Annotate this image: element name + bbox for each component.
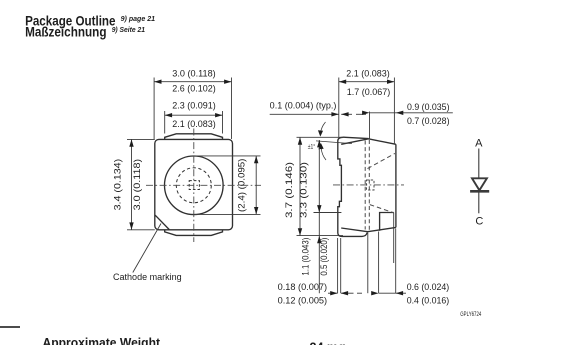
svg-text:Cathode marking: Cathode marking — [113, 272, 182, 282]
svg-text:24 mg: 24 mg — [310, 341, 346, 345]
svg-text:0.4 (0.016): 0.4 (0.016) — [407, 295, 450, 305]
svg-text:3.7 (0.146): 3.7 (0.146) — [284, 162, 294, 218]
svg-text:0.18 (0.007): 0.18 (0.007) — [278, 282, 328, 292]
svg-text:C: C — [475, 215, 483, 227]
svg-text:GPLY6724: GPLY6724 — [460, 312, 481, 318]
svg-text:(2.4) (0.095): (2.4) (0.095) — [237, 159, 247, 212]
svg-text:9) Seite 21: 9) Seite 21 — [112, 25, 145, 34]
svg-text:A: A — [475, 138, 483, 150]
svg-text:Maßzeichnung: Maßzeichnung — [25, 24, 106, 40]
svg-text:1.7 (0.067): 1.7 (0.067) — [347, 87, 390, 97]
svg-text:9) page 21: 9) page 21 — [121, 14, 156, 23]
svg-text:3.0 (0.118): 3.0 (0.118) — [172, 69, 215, 79]
svg-text:Approximate Weight: Approximate Weight — [43, 336, 161, 345]
svg-text:0.12 (0.005): 0.12 (0.005) — [278, 295, 328, 305]
svg-text:0.7 (0.028): 0.7 (0.028) — [407, 116, 450, 126]
svg-text:2.6 (0.102): 2.6 (0.102) — [172, 84, 215, 94]
svg-text:0.5 (0.020): 0.5 (0.020) — [319, 238, 329, 276]
svg-text:0.6 (0.024): 0.6 (0.024) — [407, 282, 450, 292]
svg-text:3.4 (0.134): 3.4 (0.134) — [113, 159, 123, 211]
svg-text:±1°: ±1° — [308, 143, 316, 151]
svg-text:2.1 (0.083): 2.1 (0.083) — [346, 69, 389, 79]
svg-text:1.1 (0.043): 1.1 (0.043) — [301, 238, 311, 276]
svg-text:3.3 (0.130): 3.3 (0.130) — [298, 162, 308, 218]
svg-text:0.9 (0.035): 0.9 (0.035) — [407, 102, 450, 112]
svg-text:3.0 (0.118): 3.0 (0.118) — [132, 159, 142, 211]
svg-text:2.3 (0.091): 2.3 (0.091) — [172, 101, 215, 111]
svg-text:2.1 (0.083): 2.1 (0.083) — [172, 119, 215, 129]
svg-text:0.1 (0.004) (typ.): 0.1 (0.004) (typ.) — [270, 101, 337, 111]
